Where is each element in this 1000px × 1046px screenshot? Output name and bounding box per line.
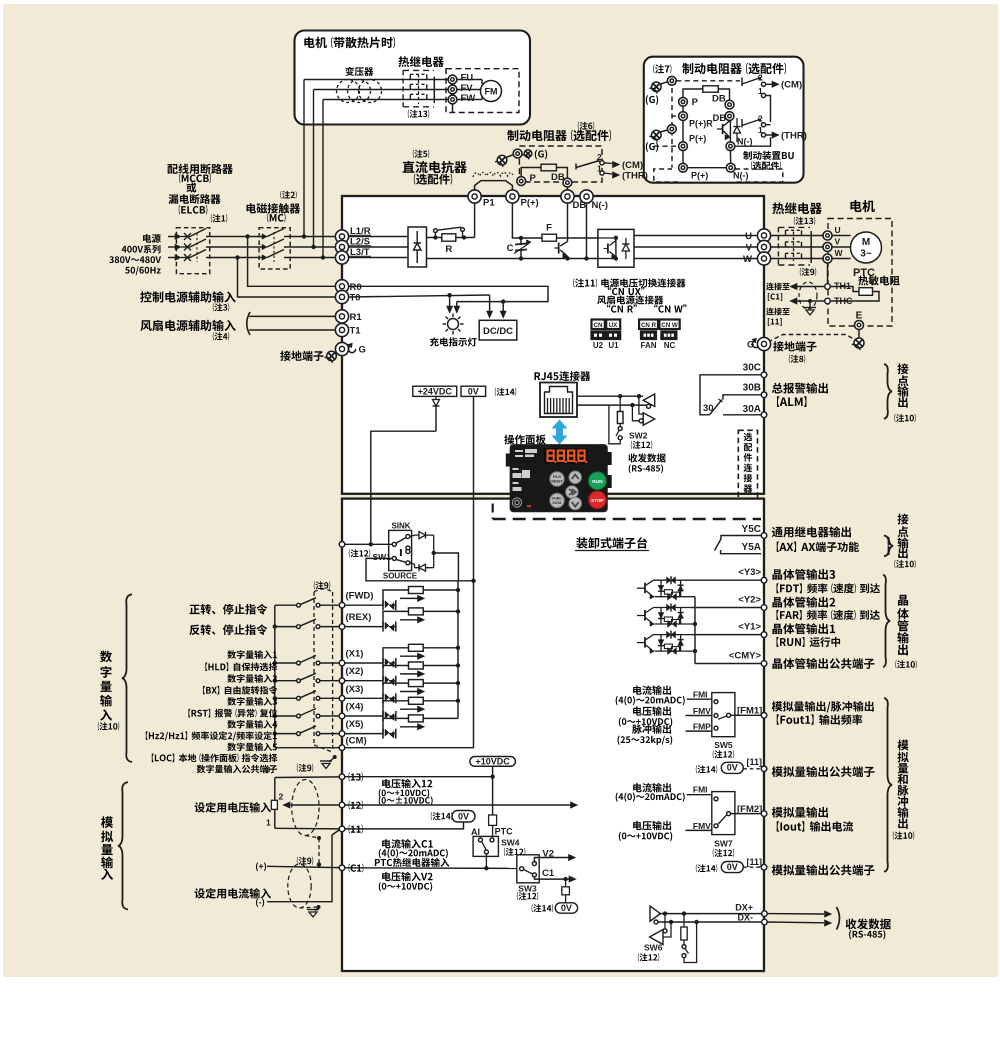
label rs485 send [628, 453, 665, 462]
terminal L2/S [335, 240, 348, 253]
label voltage output FM1 [633, 706, 671, 716]
svg-text:(CM): (CM) [622, 160, 643, 171]
wire drop W to L3 [322, 100, 324, 258]
ground screw E [854, 338, 864, 348]
keypad button RUN [589, 472, 607, 490]
signal arrow REX [400, 619, 419, 621]
label note12 sw2 [631, 441, 652, 449]
svg-text:M: M [862, 237, 870, 248]
wire FU to fan motor [457, 79, 482, 81]
svg-text:0V: 0V [458, 811, 469, 821]
svg-text:SW6: SW6 [644, 943, 663, 953]
SW1 contacts [392, 542, 396, 546]
terminal L3/T [335, 251, 348, 264]
label setting voltage input [195, 802, 271, 813]
SW3 box [517, 855, 539, 883]
label analog input vertical [101, 816, 113, 828]
terminal X1 [339, 660, 345, 666]
svg-text:1: 1 [758, 125, 763, 135]
wire bottom pair [687, 167, 726, 169]
junction buf1 tap [637, 394, 641, 398]
dashed wire from G1 [676, 80, 740, 82]
svg-text:Y5C: Y5C [742, 524, 761, 535]
wire Y5C [721, 536, 761, 540]
ground screw G2 [652, 130, 662, 140]
wire DX+ internal [660, 913, 761, 915]
wire DX- internal [658, 921, 762, 923]
brace transistor output [883, 575, 890, 667]
terminal <Y3> [761, 577, 767, 583]
shield ellipse analog1 [292, 780, 319, 836]
terminal P note6 [517, 177, 526, 186]
svg-text:P(+)R: P(+)R [689, 119, 713, 129]
SW1 box [389, 530, 412, 570]
svg-text:U: U [835, 225, 841, 235]
svg-text:N(-): N(-) [737, 137, 753, 147]
terminal DB main [561, 190, 574, 203]
terminal E [855, 321, 864, 330]
wire CMY [695, 663, 761, 665]
label note8 [789, 355, 805, 363]
wire L1 internal [349, 236, 408, 238]
label contact output 1 [897, 363, 908, 374]
junction R right [462, 235, 466, 239]
svg-text:30C: 30C [743, 363, 761, 374]
wire buf1 in [639, 396, 643, 414]
fan unit dashed box [446, 69, 519, 113]
wire DX+ external [767, 913, 824, 915]
wire resistor to DB [718, 89, 729, 100]
svg-text:DB: DB [712, 94, 726, 105]
SW7 box [712, 792, 735, 835]
terminal W motor [823, 254, 832, 263]
wire input X3 [345, 697, 383, 699]
svg-text:(FWD): (FWD) [346, 591, 374, 602]
label analog common 1 [772, 766, 875, 777]
shield dashed digital [313, 592, 315, 745]
label bianyaqi (transformer) [345, 67, 373, 76]
signal arrow FWD [400, 597, 419, 599]
label note9 analog1 [297, 764, 313, 772]
terminal 11 [339, 826, 345, 832]
driver triangle [650, 906, 660, 921]
shield ground analog2 [300, 907, 319, 908]
MC link dashed [273, 232, 275, 262]
label 【HLD】自 [205, 663, 277, 672]
junction 24v sw1 [369, 542, 373, 546]
terminal T0 [335, 290, 348, 303]
label 数字量输入1 [227, 650, 277, 659]
buffer triangle drive [643, 413, 655, 425]
svg-text:RESET: RESET [551, 480, 563, 484]
switch2 THR box7 [741, 119, 743, 128]
brake transistor BU [722, 124, 724, 134]
ground screw left [327, 351, 337, 361]
wire DB down [567, 203, 569, 241]
keypad screw [512, 498, 521, 507]
label note12 sw7 [713, 849, 734, 857]
photocoupler cell <Y2> [644, 610, 646, 621]
junction buf2 tap [630, 403, 634, 407]
SW4 contacts [479, 838, 483, 842]
svg-text:U1: U1 [608, 341, 619, 350]
svg-text:+10VDC: +10VDC [475, 756, 510, 766]
wire input X4 [345, 715, 383, 717]
terminal 12 [339, 802, 345, 808]
label <Y3> text [772, 569, 835, 580]
optocoupler X1 [382, 658, 384, 668]
wire R to P1 corner [456, 237, 475, 239]
external contact X4 [275, 715, 297, 717]
wire FMI 2 [687, 795, 716, 797]
input resistor FWD [383, 590, 409, 605]
wire FM2 out [731, 813, 762, 815]
SW6 contacts [682, 945, 686, 949]
ground screw note6 [497, 155, 507, 165]
svg-text:3~: 3~ [860, 249, 872, 260]
optocoupler X5 [382, 729, 384, 739]
terminal X5 [339, 731, 345, 737]
svg-text:G: G [359, 345, 366, 356]
fan motor FM [481, 81, 502, 102]
terminal P(+)R [679, 112, 688, 121]
label note4 [213, 332, 229, 340]
svg-text:0V: 0V [468, 386, 479, 396]
terminal fm2 0V [761, 864, 767, 870]
wire FV to fan motor [457, 89, 481, 91]
bottom terminal P(+) [679, 163, 688, 172]
svg-text:(REX): (REX) [346, 612, 372, 623]
svg-text:(CM): (CM) [346, 736, 367, 747]
transformer T1 dashed circles [337, 80, 360, 103]
svg-text:<CMY>: <CMY> [729, 651, 762, 662]
wire N(-) down [586, 203, 588, 258]
terminal <Y2> [761, 605, 767, 611]
junction c1 res [563, 877, 567, 881]
SW4 box [473, 836, 498, 856]
wire 11 ext [275, 827, 339, 830]
junction L3 to motorbox [321, 255, 325, 259]
charging lamp [448, 319, 459, 330]
terminal W edge [757, 252, 770, 265]
wire FMV 2 [686, 828, 717, 831]
terminal P(+) box7 [679, 142, 688, 151]
label 数字量输入2 [227, 674, 277, 683]
wire P to resistor note6 [521, 168, 541, 177]
label note13 right [794, 217, 815, 225]
wire W to TH column [827, 263, 829, 284]
label thermal relay right [772, 202, 821, 214]
label power source [143, 234, 161, 243]
wire U ext [771, 235, 823, 237]
RS485 bracket [837, 907, 840, 930]
wire P to resistor [683, 89, 703, 97]
motor-with-heatsink box [295, 31, 531, 125]
label note1 [211, 214, 227, 222]
external contact X2 [275, 680, 297, 682]
optocoupler X4 [382, 711, 384, 721]
label option connector [744, 433, 752, 441]
svg-text:1: 1 [266, 818, 271, 828]
connector UX icon [606, 320, 620, 330]
optocoupler FWD [382, 600, 384, 610]
wire T0 [238, 258, 343, 298]
svg-text:(X2): (X2) [346, 666, 364, 677]
label (-) [256, 898, 264, 907]
keypad button shift [566, 486, 579, 499]
svg-text:DX+: DX+ [735, 903, 753, 913]
terminal 13 [339, 774, 345, 780]
wire W ext [771, 258, 823, 260]
wire R0 charging [349, 286, 548, 301]
bus negative [427, 258, 598, 260]
label note11 connector [573, 278, 685, 287]
wire lamp drop1 [449, 295, 451, 307]
svg-text:Y5A: Y5A [742, 542, 761, 553]
label voltage input 12 [382, 779, 432, 789]
svg-text:W: W [835, 248, 844, 258]
label note12 sw5 [713, 750, 734, 758]
terminal PLC [339, 542, 345, 548]
junction cap bottom [519, 256, 523, 260]
junction dcdc tap [501, 299, 505, 303]
note6 dashed box [519, 146, 602, 182]
svg-text:<Y2>: <Y2> [738, 595, 761, 606]
svg-text:1: 1 [758, 86, 763, 96]
fuse F [542, 234, 557, 241]
charging resistor R [442, 234, 456, 241]
svg-text:NC: NC [664, 341, 676, 350]
label analog output 2 [772, 807, 828, 818]
svg-text:C: C [507, 243, 514, 254]
terminal V motor [823, 243, 832, 252]
label contact output 2 [897, 514, 908, 525]
terminal CMY [761, 661, 767, 667]
label thermistor [858, 276, 899, 286]
label (G) note6 [535, 150, 547, 160]
label C1 [349, 863, 364, 872]
terminal G2 [667, 125, 676, 134]
wire rj45 bottom [578, 404, 652, 406]
wire FMV 1 [686, 715, 714, 717]
wire U motor [823, 235, 851, 237]
label note10 c1 [894, 414, 915, 422]
svg-text:DB: DB [551, 172, 565, 183]
receiver triangle [650, 930, 663, 945]
dashed 0V fm2 [743, 866, 761, 868]
motor circle [851, 232, 882, 263]
label 13 [349, 772, 363, 781]
switch note6 [575, 164, 577, 170]
wire C1 out [534, 877, 569, 879]
label note2 [280, 191, 296, 199]
input resistor X1 [383, 648, 409, 663]
motor dashed box [828, 219, 892, 327]
keypad button STOP [589, 491, 607, 509]
svg-text:(CM): (CM) [781, 80, 802, 91]
brace contact output 2 [884, 536, 893, 557]
svg-text:P: P [692, 97, 699, 108]
wire V motor [823, 246, 851, 248]
terminal THC [825, 298, 831, 304]
label note12 SW1 [349, 549, 370, 557]
wire sw1 to sw2 [766, 96, 771, 123]
wire V out [634, 246, 758, 248]
terminal U motor [823, 231, 832, 240]
junction R0 tap [245, 234, 249, 238]
svg-text:N(-): N(-) [592, 200, 608, 211]
wire 30B [723, 395, 761, 400]
capacitor C [520, 238, 522, 244]
wire 0V to 11 [345, 822, 464, 829]
wire C1 row internal [345, 867, 517, 870]
label setting current input [195, 888, 271, 899]
note 13 label [408, 110, 429, 118]
resistor +10 [489, 815, 497, 825]
bypass contact [434, 233, 436, 238]
label note14 top [495, 388, 516, 396]
input resistor REX [383, 611, 409, 626]
label AX output [772, 526, 851, 537]
input resistor X5 [383, 718, 409, 733]
resistor note6 [541, 164, 556, 171]
label 【BX】自由 [203, 686, 277, 695]
svg-text:2: 2 [279, 792, 284, 802]
label motor [850, 200, 874, 212]
SW2 resistor chain [619, 396, 621, 411]
pot wiper box [271, 800, 277, 809]
svg-text:<Y1>: <Y1> [738, 622, 761, 633]
SW5 contacts [714, 700, 718, 704]
thermal relay 51F contacts [402, 70, 404, 106]
label <Y1> text [772, 623, 835, 634]
label (G)2 [646, 142, 658, 152]
svg-text:(X5): (X5) [346, 719, 364, 730]
svg-text:0V: 0V [727, 763, 738, 773]
svg-text:SINK: SINK [391, 522, 410, 531]
wire <Y1> [692, 634, 762, 636]
wire CM arrow [766, 83, 773, 85]
shield ellipse TH [799, 282, 817, 309]
label analog pulse vertical [897, 740, 908, 751]
wire CM arrow note6 [604, 162, 612, 165]
svg-text:<Y3>: <Y3> [738, 567, 761, 578]
brace analog pulse output [884, 698, 892, 872]
junction L2 to motorbox [311, 245, 315, 249]
terminal G right [757, 337, 770, 350]
svg-text:(THR): (THR) [622, 170, 648, 181]
label note10 c2 [894, 560, 915, 568]
external contact X1 [275, 662, 297, 664]
dotted reactor coil [473, 173, 514, 178]
brake transistor [558, 243, 560, 254]
connector CN icon [592, 320, 605, 330]
label transistor output vertical [898, 595, 908, 606]
wire N to switch2 [735, 137, 771, 146]
external contact REX [275, 626, 297, 628]
label note6 [578, 122, 594, 130]
rectifier diode [416, 231, 418, 243]
label voltage input V2 [382, 872, 432, 882]
junction N bus [584, 256, 588, 260]
terminal Y5C [761, 533, 767, 539]
bottom terminal N(-) [726, 163, 735, 172]
svg-text:2: 2 [758, 73, 763, 83]
svg-text:F: F [546, 223, 552, 234]
wire N chain box7 [729, 151, 731, 164]
terminal DX+ [762, 911, 768, 917]
inverter control section box [342, 499, 764, 971]
svg-text:30B: 30B [743, 382, 761, 393]
label note14 fm1 [696, 765, 717, 773]
svg-text:P/LG: P/LG [553, 475, 561, 479]
diode source [410, 563, 415, 564]
wire FMI 1 [687, 699, 716, 701]
braking resistor option box note7 [644, 57, 804, 183]
0V oval fm2 [721, 862, 743, 873]
optocoupler X3 [382, 693, 384, 703]
thermistor loop [830, 287, 859, 292]
wire screw to G1 [661, 82, 668, 84]
blue updown arrow [552, 420, 568, 445]
junction T0 tap [235, 255, 239, 259]
terminal FV [448, 85, 457, 94]
dashed row P(+)R [672, 115, 679, 117]
dashed row P(+) [654, 145, 679, 147]
terminal TH1 [825, 284, 831, 290]
terminal X4 [339, 713, 345, 719]
junction busA [456, 588, 460, 592]
svg-text:30A: 30A [743, 404, 761, 415]
svg-text:[11]: [11] [747, 857, 763, 867]
svg-text:SOURCE: SOURCE [383, 572, 418, 581]
label note10 fm [893, 831, 914, 839]
label (G)1 [646, 95, 658, 105]
label note9 digital [314, 581, 330, 589]
bus positive from rectifier [427, 237, 442, 239]
junction 13 +10 [490, 775, 494, 779]
label operation panel [504, 435, 546, 445]
svg-text:P1: P1 [483, 198, 495, 209]
+10VDC oval [470, 757, 516, 767]
wire dcdc drop2 [502, 302, 504, 312]
svg-text:(X4): (X4) [346, 702, 364, 713]
dashed BU enclosure [654, 169, 678, 182]
label 【Hz2/H [146, 731, 277, 740]
external contact X3 [275, 697, 297, 699]
signal arrow X5 [400, 726, 419, 728]
terminating resistor DX [682, 911, 686, 915]
signal arrow X3 [400, 691, 419, 693]
wire T1 [249, 329, 342, 331]
breaker link dashed [196, 233, 198, 262]
label 【RST】报 [188, 709, 277, 718]
svg-text:UX: UX [609, 322, 618, 329]
wire L2 internal [349, 246, 408, 248]
recycle right [752, 341, 759, 348]
shield ground digital [333, 755, 337, 759]
label 【LOC】本 [152, 754, 278, 763]
connector UX pins1 [606, 332, 620, 340]
wire fan phase V [314, 89, 449, 91]
label reverse stop [189, 624, 267, 635]
wire L3 internal [349, 257, 408, 259]
label RJ45 [534, 371, 590, 381]
svg-text:DB: DB [713, 113, 727, 124]
svg-text:T0: T0 [350, 293, 361, 304]
label note5 [413, 150, 429, 158]
label MC block [247, 203, 301, 213]
